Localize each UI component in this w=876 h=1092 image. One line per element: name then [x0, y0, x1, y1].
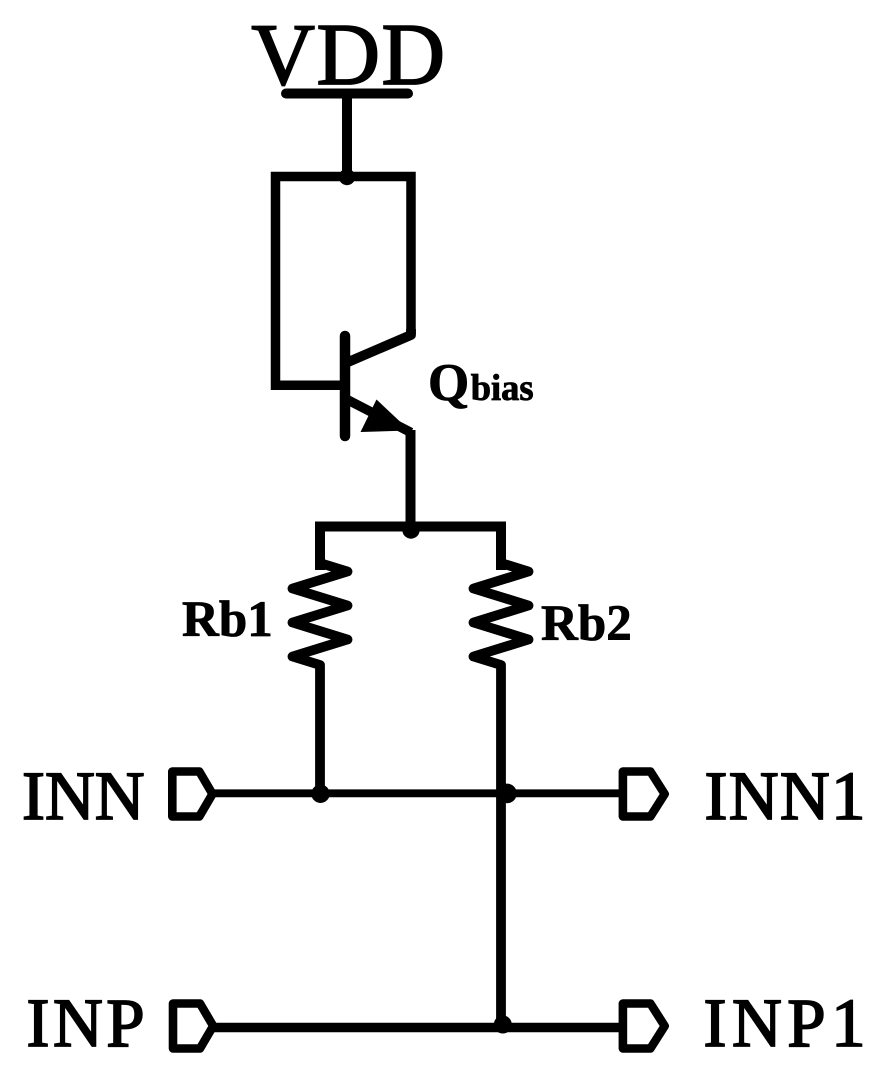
svg-text:Rb1: Rb1 [182, 592, 273, 648]
wire: bias node tee to resistor tops [320, 527, 501, 571]
terminal INN1 [623, 772, 665, 817]
wire: INP line [213, 1023, 623, 1033]
node: Rb2 to INN line [497, 784, 517, 804]
transistor Q_bias emitter lead [347, 400, 411, 433]
node: collector-base tie point [339, 169, 355, 185]
resistor Rb2 [474, 563, 529, 1028]
terminal INP [173, 1004, 213, 1049]
node: emitter / resistor junction [402, 521, 419, 538]
wire: VDD rail down to collector-base node [342, 94, 352, 179]
node: Rb2 leg to INP line [494, 1016, 512, 1034]
svg-text:Rb2: Rb2 [541, 596, 632, 652]
terminal INN [172, 772, 212, 817]
VDD power rail bar [286, 89, 408, 99]
terminal INP1 [623, 1004, 665, 1049]
node: Rb1 to INN line [311, 785, 329, 803]
svg-text:INN1: INN1 [705, 758, 867, 834]
svg-text:INN: INN [22, 758, 145, 834]
wire: INN line [213, 789, 623, 797]
svg-text:INP: INP [27, 985, 149, 1061]
transistor Q_bias collector lead [347, 329, 411, 363]
transistor Q_bias emitter arrowhead [361, 400, 410, 433]
svg-text:INP1: INP1 [704, 985, 872, 1061]
resistor Rb1 [293, 563, 348, 793]
wire: emitter down to bias node [406, 430, 416, 527]
wire: diode-connect loop from base to collector [276, 177, 412, 386]
transistor Q_bias base bar [340, 336, 351, 436]
